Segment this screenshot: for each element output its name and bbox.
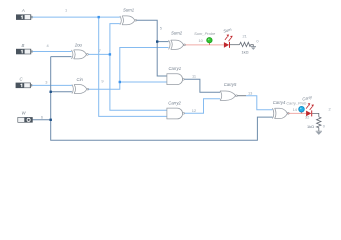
svg-text:5: 5 xyxy=(160,26,162,31)
XOR gate 2ou xyxy=(72,43,89,59)
svg-text:1kΩ: 1kΩ xyxy=(242,50,249,55)
net number 1 (A wire) xyxy=(65,7,67,12)
input W (value 0) xyxy=(18,111,33,123)
ground: sum side (net 0) xyxy=(251,47,256,50)
net number 13 (Carry5 output) xyxy=(248,91,252,96)
wire: AND Carry2 output net 12 to OR Carry5 lower input xyxy=(184,99,220,114)
svg-text:Sum2: Sum2 xyxy=(171,31,183,36)
LED Sum (lit, red) xyxy=(223,27,233,48)
AND gate Carry2 xyxy=(167,101,185,119)
svg-text:Carry5: Carry5 xyxy=(224,82,237,87)
net number 0 (sum ground) xyxy=(256,38,259,43)
resistor R2 1k (vertical zigzag) xyxy=(317,117,321,128)
input A (value 1) xyxy=(16,8,33,20)
wire: LED Sum cathode to resistor R1 to ground (net 21) xyxy=(230,45,254,47)
wire: input B to XOR 2ou (net 4) xyxy=(31,51,72,53)
wire: OR Carry5 output net 13 to XOR Carry4 upper input xyxy=(237,96,273,110)
wire: input W net 6 - box to vertical, up to 2ou, branch to Cin, bottom rail to XOR Carry4 xyxy=(33,57,273,141)
net number 6 (W wire) xyxy=(41,115,43,120)
net number 7 (2ou output) xyxy=(99,48,101,53)
node: junction A net xyxy=(98,16,100,18)
svg-text:12: 12 xyxy=(192,108,196,113)
wire: XOR Sum1 output net 5 to Sum2 upper input and down to Carry1 upper input xyxy=(136,20,168,76)
wire: XOR Carry4 output net 14 (red) to LED Carry xyxy=(287,112,306,114)
net number 10 (Sum2 output, red) xyxy=(199,38,204,43)
svg-text:6: 6 xyxy=(41,115,43,120)
svg-text:Carry: Carry xyxy=(302,94,314,102)
node: junction net 9 xyxy=(119,81,121,83)
probe Sum_Probe (green, logic high) xyxy=(194,31,216,45)
svg-text:0: 0 xyxy=(323,124,326,129)
input C (value 1) xyxy=(16,77,33,89)
probe Carry_Prob (blue) xyxy=(286,100,307,113)
svg-text:2: 2 xyxy=(329,107,331,112)
LED Carry (red) xyxy=(302,94,314,116)
svg-text:3: 3 xyxy=(45,80,47,85)
XOR gate Carry4 xyxy=(272,100,289,119)
wire: input A to XOR Sum1 (net 1) xyxy=(31,16,120,18)
svg-text:C: C xyxy=(19,77,23,82)
wire: XOR Sum2 output net 10 (high, red) to LED Sum xyxy=(185,44,224,46)
net number 3 (C wire) xyxy=(45,80,47,85)
svg-text:Sum: Sum xyxy=(223,27,233,34)
svg-text:11: 11 xyxy=(192,73,196,78)
value label 1k carry resistor xyxy=(307,124,314,129)
net number 11 (Carry1 output) xyxy=(192,73,196,78)
svg-text:4: 4 xyxy=(47,43,50,48)
svg-text:Sum_Probe: Sum_Probe xyxy=(194,31,216,36)
node: junction net 5 at Sum2 input xyxy=(156,40,158,42)
svg-text:Cin: Cin xyxy=(77,77,84,82)
node: junction W net at input wire xyxy=(50,119,52,121)
svg-text:1: 1 xyxy=(65,7,67,12)
XOR gate Sum2 xyxy=(169,31,186,50)
svg-text:0: 0 xyxy=(256,38,259,43)
OR gate Carry5 xyxy=(220,82,237,100)
svg-text:W: W xyxy=(21,111,26,116)
ground: carry side (net 0) xyxy=(316,131,322,135)
net number 14 (Carry4 output, red) xyxy=(293,107,298,112)
wire: AND Carry1 output net 11 to OR Carry5 upper input xyxy=(184,79,220,92)
svg-text:10: 10 xyxy=(199,38,204,43)
svg-text:Carry1: Carry1 xyxy=(169,66,182,71)
wire: input C to XOR Cin (net 3) xyxy=(31,84,72,86)
AND gate Carry1 xyxy=(167,66,184,84)
XOR gate Cin xyxy=(72,77,89,94)
net number 5 (Sum1 output) xyxy=(160,26,162,31)
net number 12 (Carry2 output) xyxy=(192,108,196,113)
svg-text:14: 14 xyxy=(293,107,298,112)
net number 2 (carry resistor top) xyxy=(329,107,331,112)
svg-text:21: 21 xyxy=(243,33,247,38)
wire: A branch down to AND Carry2 lower input xyxy=(99,17,167,116)
svg-text:7: 7 xyxy=(99,48,101,53)
value label 1k sum resistor xyxy=(242,50,249,55)
svg-text:1kΩ: 1kΩ xyxy=(307,124,314,129)
svg-text:Sum1: Sum1 xyxy=(123,7,134,12)
net number 9 (Cin output) xyxy=(101,79,103,84)
input B (value 1) xyxy=(16,43,33,55)
svg-text:2ou: 2ou xyxy=(74,43,83,48)
net number 0 (carry ground) xyxy=(323,124,326,129)
svg-text:32: 32 xyxy=(305,114,309,119)
net number 4 (B wire) xyxy=(47,43,50,48)
net number 32 (carry LED cathode) xyxy=(305,114,309,119)
node: junction net 7 xyxy=(109,53,111,55)
wire: LED Carry cathode down to resistor R2 to ground xyxy=(312,113,319,131)
wire: net 9 branch to AND Carry1 lower input xyxy=(120,81,167,83)
wire: XOR 2ou output net 7 to junction xyxy=(88,53,110,55)
svg-text:A: A xyxy=(21,8,25,13)
XOR gate Sum1 xyxy=(120,7,137,24)
svg-text:Carry4: Carry4 xyxy=(273,100,286,105)
node: junction W net at Cin branch xyxy=(50,91,52,93)
resistor R1 1k (horizontal zigzag) xyxy=(239,42,250,46)
wire: net 7 vertical up to Sum1 lower input and down to Carry2 upper input xyxy=(110,24,167,111)
wire: XOR Cin output net 9 right then up to Sum2 lower input xyxy=(88,48,169,90)
svg-text:9: 9 xyxy=(101,79,103,84)
svg-text:13: 13 xyxy=(248,91,252,96)
svg-text:B: B xyxy=(21,43,24,48)
svg-text:Carry2: Carry2 xyxy=(168,101,181,106)
net number 21 (sum resistor) xyxy=(243,33,247,38)
